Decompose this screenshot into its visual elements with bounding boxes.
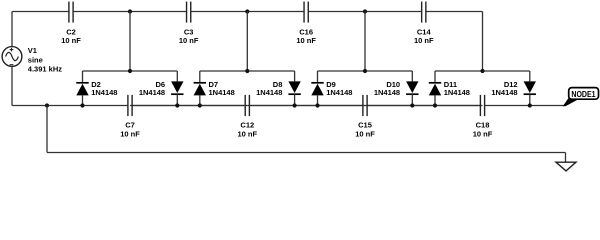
wire bottom rail 1L	[12, 105, 128, 107]
svg-text:10 nF: 10 nF	[179, 36, 199, 45]
junction bottom rail node D11	[433, 103, 437, 107]
svg-text:10 nF: 10 nF	[355, 129, 375, 138]
svg-text:C12: C12	[240, 121, 254, 130]
wire bottom rail 1R	[132, 105, 247, 107]
wire ground stub	[565, 153, 567, 163]
capacitor C15 10 nF	[355, 95, 375, 138]
wire top rail 4R	[426, 11, 483, 13]
node NODE1 flag	[563, 88, 599, 107]
capacitor C2 10 nF	[61, 2, 81, 46]
junction bottom rail node D10	[410, 103, 414, 107]
capacitor C7 10 nF	[120, 95, 140, 138]
svg-text:C15: C15	[358, 121, 372, 130]
svg-text:1N4148: 1N4148	[91, 88, 117, 97]
junction top rail node 1	[128, 9, 132, 13]
svg-text:1N4148: 1N4148	[256, 88, 282, 97]
wire top rail 4L	[365, 11, 422, 13]
svg-text:10 nF: 10 nF	[238, 129, 258, 138]
wire bottom rail 3R	[367, 105, 482, 107]
wire bottom rail 4L	[365, 105, 480, 107]
svg-text:1N4148: 1N4148	[326, 88, 352, 97]
wire V1 bottom lead	[11, 66, 13, 105]
svg-text:1N4148: 1N4148	[374, 88, 400, 97]
junction mid segment node 2	[245, 69, 249, 73]
junction bottom rail node D7	[198, 103, 202, 107]
wire V1 top lead	[11, 12, 13, 47]
wire ground drop	[46, 106, 48, 153]
wire ground run	[47, 152, 566, 154]
diode D2 1N4148 cathode-up	[76, 71, 117, 106]
svg-text:sine: sine	[28, 55, 43, 64]
wire top rail 1L	[12, 11, 69, 13]
wire drop 1 top-to-mid	[129, 12, 131, 72]
capacitor C18 10 nF	[473, 95, 493, 138]
diode D12 1N4148 cathode-down	[491, 71, 536, 106]
wire bottom rail 2L	[130, 105, 245, 107]
junction top rail node 2	[245, 9, 249, 13]
wire mid segment 3	[318, 70, 413, 72]
voltage source V1 sine 4.391 kHz	[2, 46, 62, 73]
diode D11 1N4148 cathode-up	[429, 71, 470, 106]
svg-text:C18: C18	[476, 121, 490, 130]
wire drop 2 top-to-mid	[246, 12, 248, 72]
junction ground tap	[45, 103, 49, 107]
wire top rail 3L	[247, 11, 304, 13]
svg-text:10 nF: 10 nF	[473, 129, 493, 138]
svg-text:10 nF: 10 nF	[120, 129, 140, 138]
svg-text:NODE1: NODE1	[571, 89, 595, 99]
wire top rail 2L	[130, 11, 187, 13]
wire mid segment 4	[435, 70, 530, 72]
wire drop 3 top-to-mid	[364, 12, 366, 72]
junction top rail node 3	[363, 9, 367, 13]
svg-text:1N4148: 1N4148	[209, 88, 235, 97]
wire top rail 3R	[308, 11, 365, 13]
junction mid segment node 4	[480, 69, 484, 73]
svg-text:10 nF: 10 nF	[414, 36, 434, 45]
svg-text:1N4148: 1N4148	[139, 88, 165, 97]
diode D9 1N4148 cathode-up	[311, 71, 352, 106]
svg-text:V1: V1	[28, 46, 37, 55]
diode D6 1N4148 cathode-down	[139, 71, 184, 106]
svg-text:1N4148: 1N4148	[491, 88, 517, 97]
svg-text:1N4148: 1N4148	[444, 88, 470, 97]
capacitor C12 10 nF	[238, 95, 258, 138]
svg-text:4.391 kHz: 4.391 kHz	[28, 64, 62, 73]
wire drop 4 top-to-mid	[482, 12, 484, 72]
junction bottom rail node D2	[80, 103, 84, 107]
junction bottom rail node D9	[315, 103, 319, 107]
junction mid segment node 3	[363, 69, 367, 73]
junction bottom rail node D12	[528, 103, 532, 107]
wire mid segment 1	[83, 70, 178, 72]
wire top rail 2R	[191, 11, 248, 13]
svg-text:C7: C7	[125, 121, 135, 130]
capacitor C3 10 nF	[179, 2, 199, 46]
svg-text:10 nF: 10 nF	[61, 36, 81, 45]
wire bottom rail 3L	[247, 105, 363, 107]
diode D10 1N4148 cathode-down	[374, 71, 419, 106]
capacitor C16 10 nF	[296, 2, 316, 46]
junction bottom rail node D8	[293, 103, 297, 107]
wire mid segment 2	[200, 70, 295, 72]
svg-text:10 nF: 10 nF	[296, 36, 316, 45]
diode D7 1N4148 cathode-up	[194, 71, 235, 106]
diode D8 1N4148 cathode-down	[256, 71, 301, 106]
junction mid segment node 1	[128, 69, 132, 73]
ground symbol	[556, 162, 576, 171]
wire top rail 1R	[73, 11, 130, 13]
wire bottom rail 2R	[249, 105, 365, 107]
capacitor C14 10 nF	[414, 2, 434, 46]
wire bottom rail to NODE1	[485, 105, 564, 107]
junction bottom rail node D6	[175, 103, 179, 107]
